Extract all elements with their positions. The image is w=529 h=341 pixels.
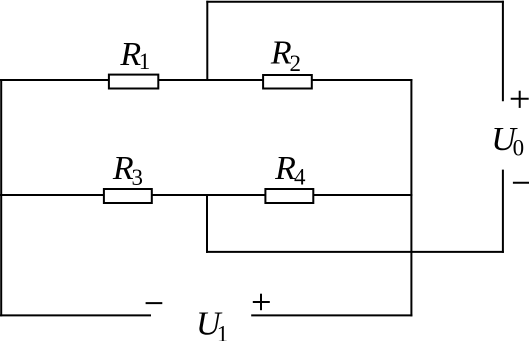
plus sign at U0 positive terminal xyxy=(511,91,529,108)
wire left vertical xyxy=(0,79,2,316)
svg-text:2: 2 xyxy=(290,51,302,76)
label R2 xyxy=(270,35,301,77)
resistor R1 xyxy=(109,75,158,89)
wire vertical tap from top bus to R1-R2 node xyxy=(206,1,208,81)
wire top bus xyxy=(206,1,504,3)
svg-text:3: 3 xyxy=(132,165,144,190)
wire U0 plus lead vertical xyxy=(502,1,504,102)
minus sign at U1 negative terminal xyxy=(146,302,163,304)
label R3 xyxy=(112,150,143,190)
resistor R3 xyxy=(104,189,152,203)
plus sign at U1 positive terminal xyxy=(253,294,270,311)
wire row 2 (R3-R4 branch) xyxy=(0,194,412,196)
svg-text:4: 4 xyxy=(294,165,306,190)
wire bottom right (U1 plus lead) xyxy=(251,314,412,316)
label R1 xyxy=(119,36,150,74)
label R4 xyxy=(274,150,306,190)
label U0 xyxy=(491,121,524,160)
wire row 1 (R1-R2 branch) xyxy=(0,79,412,81)
wire mid-right vertical xyxy=(410,79,412,316)
wire bottom left (U1 minus lead) xyxy=(0,314,151,316)
wire mid horizontal to U0 minus lead xyxy=(206,251,504,253)
svg-text:0: 0 xyxy=(513,135,525,160)
resistor R4 xyxy=(265,189,313,203)
label U1 xyxy=(196,306,228,341)
minus sign at U0 negative terminal xyxy=(513,182,529,184)
wire U0 minus lead vertical xyxy=(502,170,504,253)
wire vertical tap from R3-R4 node down xyxy=(206,194,208,253)
svg-text:R: R xyxy=(274,150,296,187)
resistor R2 xyxy=(263,75,312,89)
svg-text:1: 1 xyxy=(217,322,229,341)
svg-text:1: 1 xyxy=(139,49,151,74)
